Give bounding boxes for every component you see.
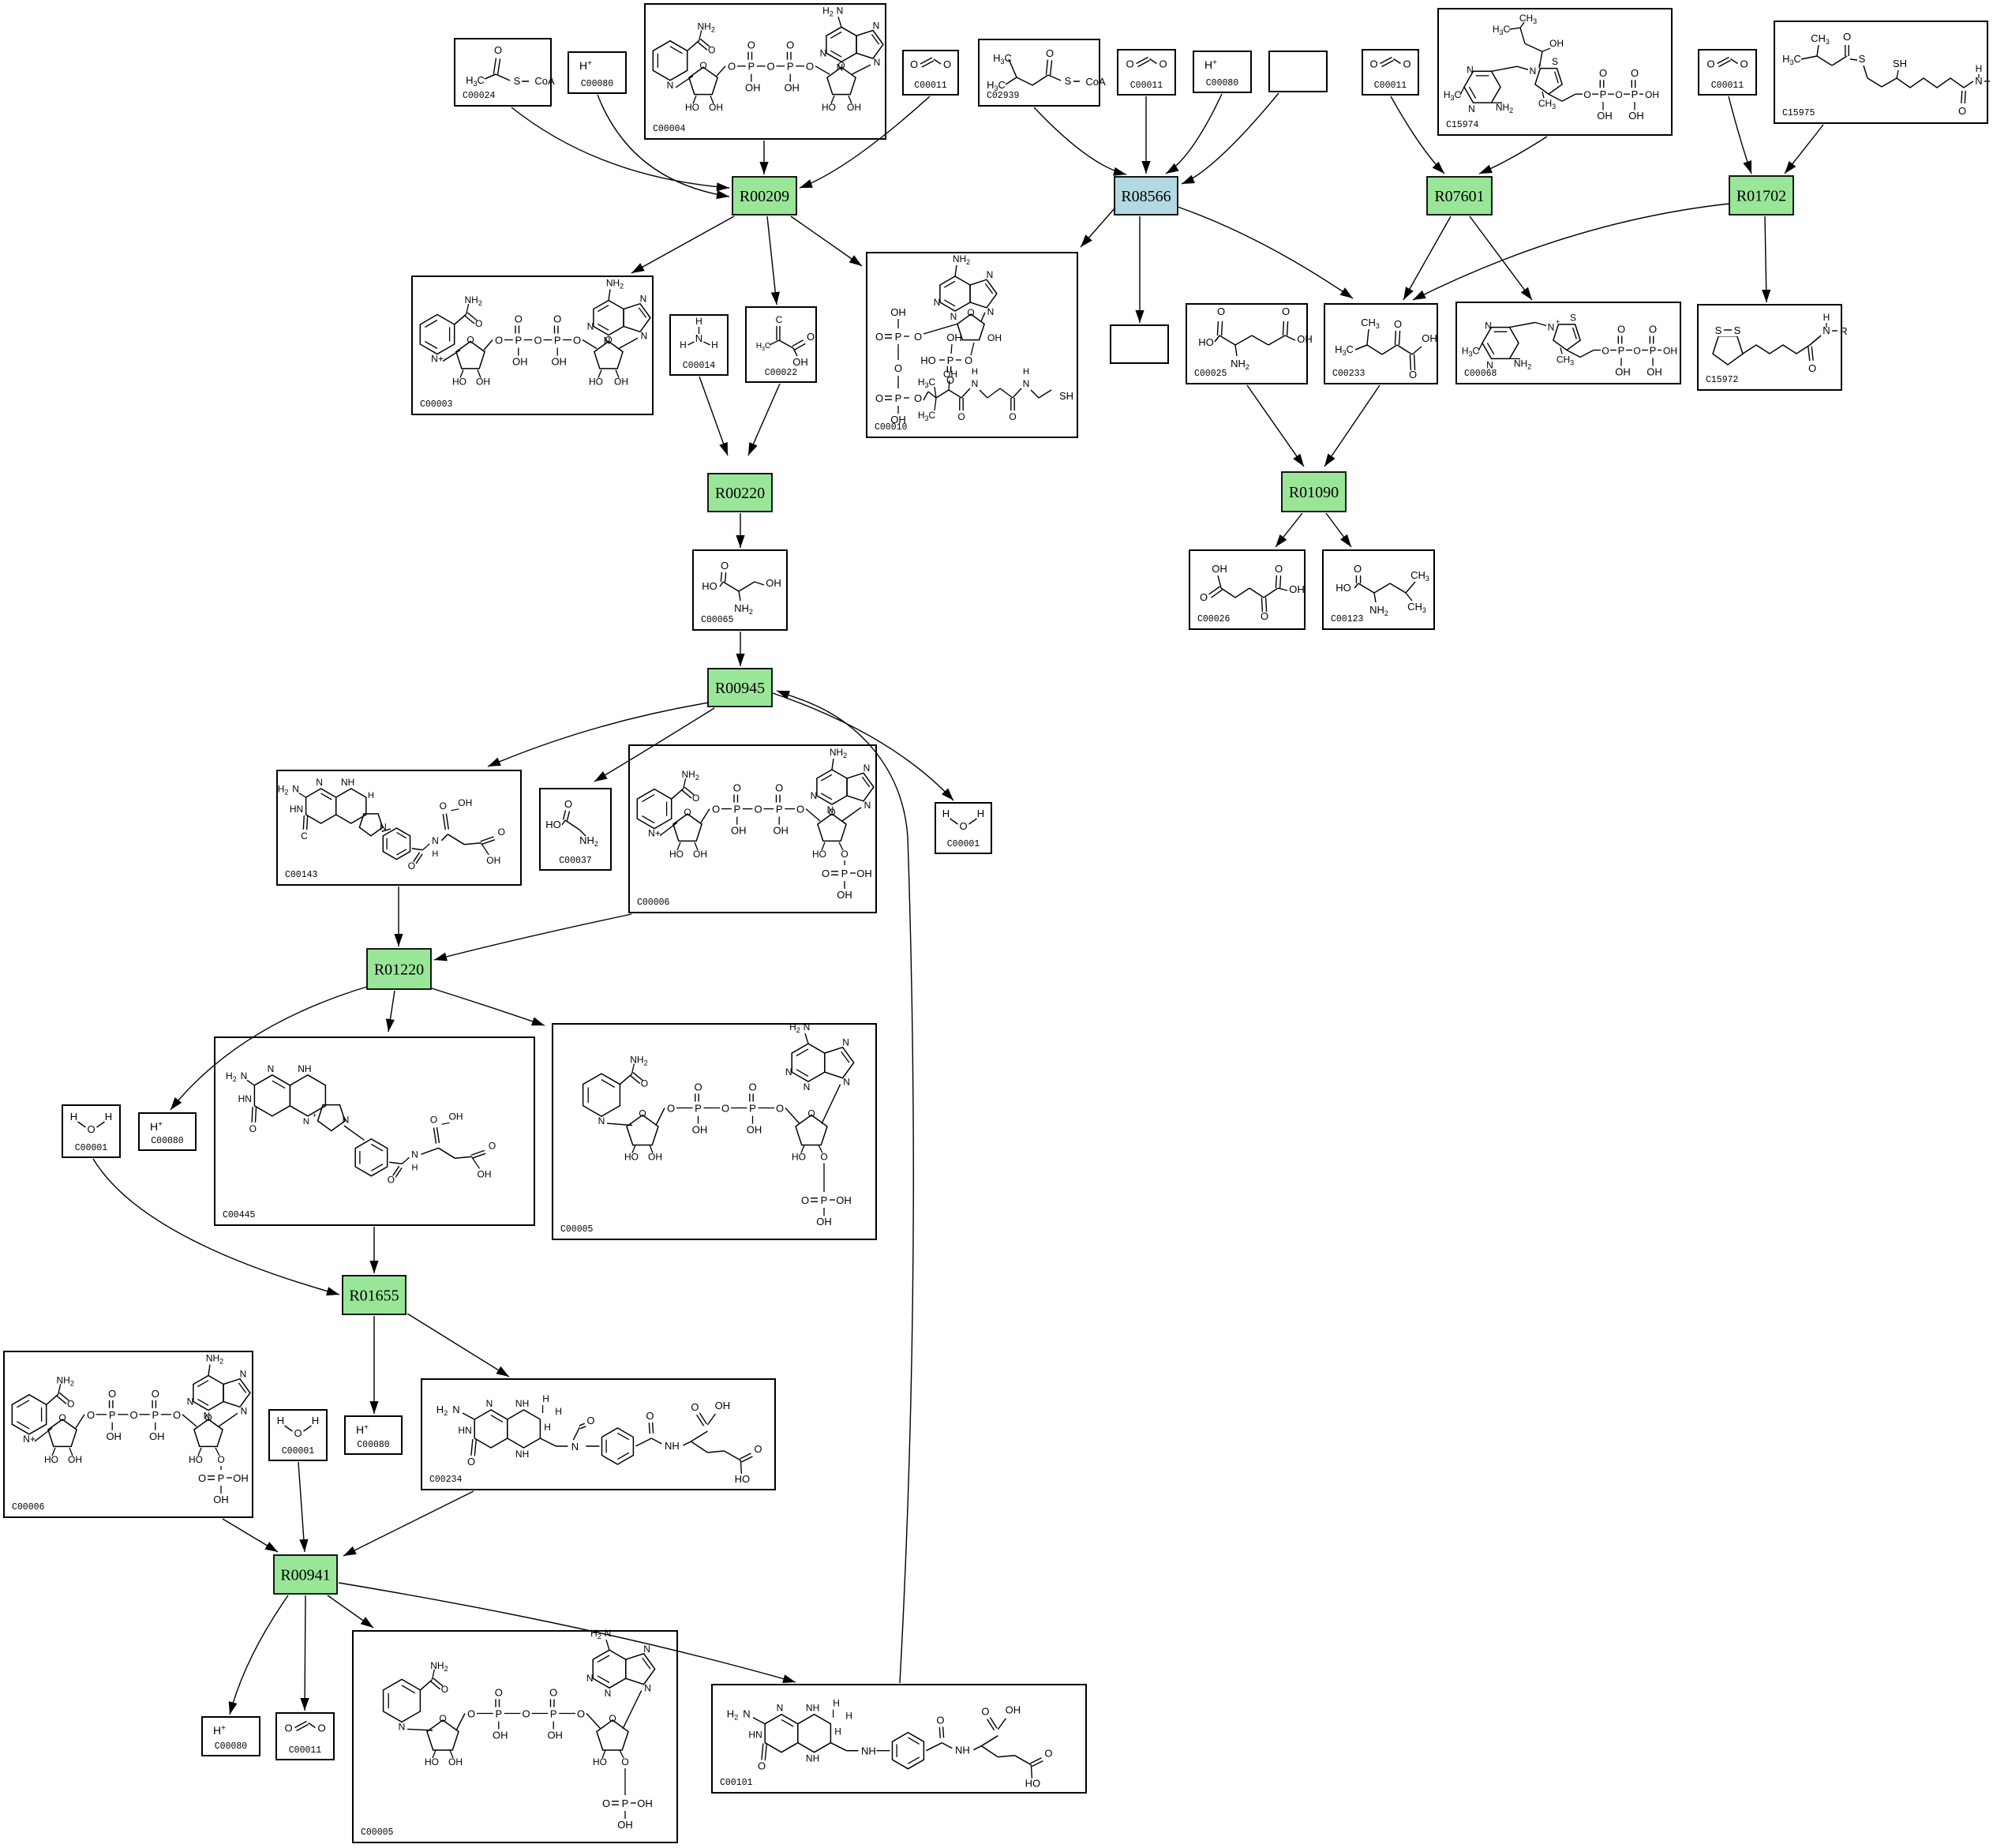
svg-text:R01655: R01655 <box>349 1288 399 1305</box>
svg-text:O: O <box>1958 105 1966 117</box>
arrow R08566 to C00233 <box>1178 207 1353 298</box>
reaction R00209 <box>732 177 796 215</box>
arrow C00445 to R01655 <box>369 1227 378 1273</box>
svg-text:N: N <box>804 1081 811 1093</box>
svg-text:P: P <box>749 1103 756 1115</box>
svg-text:NH: NH <box>806 1703 819 1714</box>
svg-text:N: N <box>804 1021 811 1033</box>
svg-text:N: N <box>343 1114 350 1125</box>
arrow R00941 to C00005 <box>328 1595 373 1628</box>
svg-text:OH: OH <box>1549 38 1564 49</box>
svg-text:OH: OH <box>816 1216 832 1228</box>
svg-text:O: O <box>1808 362 1816 374</box>
svg-text:O: O <box>439 1713 446 1724</box>
svg-text:C00101: C00101 <box>720 1778 753 1788</box>
arrow empty box to R08566 <box>1182 93 1279 184</box>
svg-text:O: O <box>1599 67 1607 79</box>
arrow C00234 to R00941 <box>343 1491 474 1556</box>
svg-text:O: O <box>549 1687 557 1699</box>
svg-text:O: O <box>957 411 965 422</box>
svg-text:H: H <box>833 1698 840 1709</box>
svg-text:O: O <box>841 849 848 860</box>
svg-text:O: O <box>691 1401 699 1413</box>
svg-text:N: N <box>452 1404 459 1415</box>
svg-text:HO: HO <box>1198 336 1214 348</box>
svg-text:O: O <box>1354 563 1362 575</box>
svg-text:NH: NH <box>665 1440 680 1452</box>
svg-text:N: N <box>604 335 611 347</box>
svg-text:P: P <box>947 354 954 366</box>
svg-text:P: P <box>1650 345 1657 357</box>
svg-text:NH: NH <box>341 777 354 788</box>
svg-text:O: O <box>728 61 736 73</box>
arrow R00945 to C00143 <box>488 703 709 767</box>
svg-text:N: N <box>785 1066 792 1078</box>
svg-text:R01702: R01702 <box>1736 188 1786 205</box>
svg-text:HO: HO <box>425 1756 439 1767</box>
compound C15975 S-isovaleryl-dihydrolipoamide <box>1774 21 1993 123</box>
svg-text:C00234: C00234 <box>429 1475 463 1485</box>
svg-text:C: C <box>301 830 308 842</box>
svg-text:N: N <box>843 1077 850 1088</box>
svg-text:N: N <box>571 1441 579 1453</box>
svg-text:C00143: C00143 <box>285 870 318 880</box>
svg-text:H: H <box>845 1711 852 1722</box>
arrow C00143 to R01220 <box>394 887 403 946</box>
svg-text:P: P <box>787 61 794 73</box>
svg-text:HO: HO <box>44 1454 58 1465</box>
compound C00101 tetrahydrofolate <box>712 1685 1086 1793</box>
svg-text:P: P <box>152 1409 159 1421</box>
svg-text:O: O <box>1409 369 1417 380</box>
svg-text:O: O <box>173 1409 181 1421</box>
svg-text:H: H <box>834 1726 841 1737</box>
arrow C00014 to R00220 <box>699 377 728 455</box>
svg-text:HO: HO <box>1025 1778 1041 1790</box>
svg-text:N: N <box>777 1703 784 1714</box>
svg-text:NH: NH <box>806 1753 819 1764</box>
svg-text:S: S <box>1715 324 1722 336</box>
svg-text:C00014: C00014 <box>683 361 716 371</box>
svg-text:P: P <box>1618 345 1625 357</box>
svg-text:P: P <box>895 392 902 404</box>
arrow C00025 to R01090 <box>1247 385 1304 467</box>
svg-text:OH: OH <box>1645 89 1659 100</box>
svg-text:N: N <box>598 1115 605 1126</box>
compound C00011 CO2 (2) <box>1118 50 1175 95</box>
svg-text:O: O <box>1631 67 1639 79</box>
svg-text:OH: OH <box>617 1819 633 1831</box>
arrow R00941 to C00011 <box>301 1595 309 1711</box>
svg-text:N: N <box>605 1628 612 1639</box>
svg-text:OH: OH <box>233 1472 249 1484</box>
reaction R00945 <box>708 669 772 707</box>
svg-text:N: N <box>987 269 994 280</box>
svg-text:C00445: C00445 <box>223 1210 256 1220</box>
svg-text:O: O <box>577 1708 585 1720</box>
compound C02939 isovaleryl-CoA <box>979 39 1106 106</box>
svg-text:NH: NH <box>861 1745 876 1757</box>
arrow C00024 to R00209 <box>511 107 729 191</box>
svg-text:O: O <box>108 1388 116 1400</box>
svg-text:O: O <box>1403 58 1410 70</box>
compound C00001 H2O (2) <box>62 1105 120 1157</box>
arrow C00011 to R08566 <box>1141 96 1150 174</box>
svg-text:O: O <box>914 392 922 404</box>
svg-text:O: O <box>317 1722 325 1734</box>
svg-text:O: O <box>1261 610 1268 622</box>
svg-text:OH: OH <box>766 577 781 589</box>
svg-text:O: O <box>965 354 972 366</box>
svg-text:O: O <box>758 1760 766 1772</box>
svg-text:OH: OH <box>747 1124 762 1136</box>
svg-text:NH: NH <box>515 1449 529 1460</box>
compound C15972 lipoamide <box>1698 305 1848 390</box>
svg-text:O: O <box>820 1152 827 1163</box>
svg-text:OH: OH <box>449 1111 463 1122</box>
compound C00068 thiamine diphosphate <box>1456 302 1680 384</box>
svg-text:OH: OH <box>1615 366 1631 378</box>
svg-text:O: O <box>1200 591 1208 603</box>
svg-text:O: O <box>1044 1748 1052 1760</box>
svg-text:N: N <box>874 57 881 68</box>
svg-text:O: O <box>667 1103 675 1115</box>
reaction R00220 <box>708 474 772 512</box>
svg-text:N: N <box>399 1721 406 1732</box>
svg-text:O: O <box>967 307 974 318</box>
svg-text:P: P <box>109 1409 116 1421</box>
svg-text:C00006: C00006 <box>12 1502 45 1513</box>
svg-text:OH: OH <box>149 1430 165 1442</box>
svg-text:C00065: C00065 <box>701 615 734 625</box>
svg-text:N: N <box>667 80 674 91</box>
svg-text:O: O <box>152 1388 159 1400</box>
arrow R01220 to C00080 <box>170 987 367 1110</box>
arrow C00004 to R00209 <box>759 141 768 174</box>
svg-text:O: O <box>875 392 883 404</box>
arrow R00220 to C00065 <box>736 513 744 548</box>
svg-text:H: H <box>942 808 950 819</box>
svg-text:O: O <box>1583 89 1590 100</box>
svg-text:C15975: C15975 <box>1782 108 1815 118</box>
svg-text:OH: OH <box>847 102 861 113</box>
svg-text:O: O <box>1633 346 1640 357</box>
compound C00001 H2O (1) <box>935 803 991 853</box>
svg-text:O: O <box>776 1103 784 1115</box>
svg-text:O: O <box>621 1756 628 1767</box>
svg-text:O: O <box>249 1123 257 1134</box>
arrow C00011 to R00209 <box>800 96 930 188</box>
svg-text:C00080: C00080 <box>581 79 614 89</box>
svg-text:S: S <box>1859 53 1866 65</box>
svg-text:C15974: C15974 <box>1446 120 1479 130</box>
arrow C00001 to R01655 <box>93 1159 339 1295</box>
svg-text:O: O <box>553 313 561 325</box>
svg-text:H: H <box>277 1415 284 1426</box>
svg-text:OH: OH <box>692 1124 708 1136</box>
arrow C00022 to R00220 <box>748 384 780 455</box>
svg-text:H: H <box>70 1111 77 1123</box>
svg-text:P: P <box>695 1103 702 1115</box>
svg-text:N: N <box>644 1683 651 1694</box>
svg-text:SH: SH <box>1893 58 1907 69</box>
svg-text:C00080: C00080 <box>357 1440 390 1450</box>
arrow R01702 to C00233 (long) <box>1413 204 1729 300</box>
svg-text:C: C <box>776 314 783 325</box>
svg-text:N: N <box>1548 322 1555 333</box>
compound C00080 H+ (1) <box>568 52 626 93</box>
svg-text:O: O <box>408 860 415 872</box>
svg-text:CoA: CoA <box>1085 76 1106 88</box>
compound C00001 H2O (3) <box>269 1410 327 1460</box>
svg-text:N+: N+ <box>648 828 661 839</box>
svg-text:O: O <box>602 1797 610 1809</box>
svg-text:O: O <box>981 1706 989 1718</box>
svg-text:O: O <box>721 1103 729 1115</box>
reaction R00941 <box>274 1555 337 1594</box>
svg-text:R: R <box>1840 325 1847 337</box>
svg-text:C00037: C00037 <box>559 856 591 866</box>
svg-text:N: N <box>842 1037 849 1048</box>
svg-text:O: O <box>807 1108 815 1119</box>
svg-text:C02939: C02939 <box>987 91 1020 101</box>
svg-text:C00080: C00080 <box>1206 78 1239 88</box>
svg-text:CoA: CoA <box>534 75 555 87</box>
arrow R00945 to C00001 <box>773 693 953 800</box>
compound C00080 H+ (5) <box>202 1717 260 1756</box>
svg-text:OH: OH <box>890 306 906 318</box>
svg-text:HO: HO <box>189 1454 203 1465</box>
svg-text:O: O <box>910 58 918 70</box>
svg-text:S: S <box>1734 324 1741 336</box>
svg-text:HN: HN <box>748 1730 762 1741</box>
svg-text:H: H <box>977 808 984 819</box>
compound C00025 L-glutamate <box>1186 304 1313 384</box>
svg-text:N: N <box>241 1070 248 1081</box>
svg-text:N: N <box>743 1708 750 1720</box>
svg-text:N: N <box>820 47 827 58</box>
svg-text:O: O <box>129 1409 137 1421</box>
svg-text:N: N <box>837 62 844 73</box>
svg-text:HO: HO <box>812 849 826 860</box>
svg-text:N: N <box>432 835 439 846</box>
svg-text:N: N <box>972 378 979 389</box>
svg-text:P: P <box>622 1797 629 1809</box>
svg-text:+: + <box>313 1111 317 1119</box>
svg-text:O: O <box>806 61 814 73</box>
svg-text:N: N <box>643 1644 650 1655</box>
arrow R01090 to C00026 <box>1276 513 1302 547</box>
svg-text:OH: OH <box>837 889 852 901</box>
svg-text:OH: OH <box>637 1797 653 1809</box>
compound C00080 H+ (4) <box>345 1416 402 1454</box>
svg-text:HN: HN <box>458 1425 471 1436</box>
svg-text:OH: OH <box>512 356 528 368</box>
svg-text:O: O <box>1394 318 1402 330</box>
svg-text:HN: HN <box>290 804 303 815</box>
svg-text:N: N <box>411 1149 418 1160</box>
svg-text:O: O <box>775 782 783 794</box>
svg-text:O: O <box>646 1410 654 1422</box>
svg-text:N: N <box>1468 103 1475 114</box>
svg-text:H: H <box>1023 367 1029 377</box>
svg-text:P: P <box>218 1472 225 1484</box>
svg-text:O: O <box>388 1174 395 1185</box>
svg-text:HO: HO <box>822 102 836 113</box>
reaction R01220 <box>367 949 431 989</box>
svg-text:O: O <box>807 331 815 343</box>
svg-text:O: O <box>1369 58 1377 70</box>
svg-text:N: N <box>837 5 844 16</box>
svg-text:N: N <box>586 1673 594 1684</box>
compound C00003 NAD+ <box>412 276 653 414</box>
svg-text:O: O <box>494 44 502 56</box>
svg-text:OH: OH <box>458 797 472 808</box>
svg-text:O: O <box>1275 563 1283 575</box>
svg-text:N+: N+ <box>431 354 444 365</box>
arrow C15975 to R01702 <box>1785 125 1823 174</box>
svg-text:N: N <box>1485 320 1492 332</box>
svg-text:N: N <box>240 1369 247 1380</box>
svg-text:O: O <box>747 39 755 51</box>
svg-text:OH: OH <box>1297 333 1313 345</box>
svg-text:C00003: C00003 <box>420 399 453 410</box>
svg-text:H: H <box>1976 63 1983 74</box>
arrow R08566 to empty box <box>1135 216 1144 323</box>
svg-text:OH: OH <box>476 377 490 388</box>
svg-text:O: O <box>796 804 804 815</box>
svg-text:N: N <box>827 804 834 815</box>
svg-text:O: O <box>1615 89 1622 100</box>
compound C00005 NADPH (2) <box>353 1628 677 1842</box>
svg-text:C00022: C00022 <box>765 368 798 378</box>
svg-text:N: N <box>811 790 818 801</box>
svg-text:OH: OH <box>1289 583 1305 595</box>
svg-text:H: H <box>1823 312 1830 323</box>
svg-text:O: O <box>515 313 523 325</box>
arrow C00101 to R00945 (long) <box>777 691 913 1683</box>
svg-text:O: O <box>721 560 729 572</box>
svg-text:O: O <box>87 1409 95 1421</box>
svg-text:N: N <box>587 321 594 332</box>
svg-text:C00006: C00006 <box>637 898 670 908</box>
svg-text:O: O <box>694 1081 702 1093</box>
svg-text:C00004: C00004 <box>653 124 686 134</box>
svg-text:C00005: C00005 <box>560 1224 594 1235</box>
svg-text:N: N <box>950 311 957 322</box>
svg-text:O: O <box>754 804 762 815</box>
svg-text:OH: OH <box>1422 332 1437 344</box>
svg-text:P: P <box>495 1708 502 1720</box>
svg-text:C00011: C00011 <box>914 81 947 91</box>
svg-text:HO: HO <box>452 377 466 388</box>
svg-text:OH: OH <box>731 825 747 837</box>
svg-text:O: O <box>801 1194 809 1206</box>
compound C00004 NADH <box>645 4 886 139</box>
svg-text:OH: OH <box>547 1730 563 1741</box>
svg-text:OH: OH <box>745 82 761 94</box>
arrow C00011 to R07601 <box>1391 96 1444 174</box>
reaction R07601 <box>1427 177 1492 215</box>
compound C00010 CoA <box>867 253 1077 437</box>
svg-text:O: O <box>1602 346 1609 357</box>
svg-text:HN: HN <box>238 1093 252 1104</box>
compound C00143 5,10-methylene-THF <box>277 770 521 885</box>
svg-text:P: P <box>821 1194 828 1206</box>
arrow C02939 to R08566 <box>1034 107 1126 176</box>
svg-text:O: O <box>766 61 774 73</box>
arrow R00941 to C00080 <box>229 1595 288 1715</box>
svg-text:O: O <box>198 1472 206 1484</box>
svg-text:R00209: R00209 <box>740 188 789 205</box>
svg-text:HO: HO <box>735 1473 751 1485</box>
svg-text:O: O <box>564 798 572 810</box>
svg-text:N: N <box>292 783 299 794</box>
arrow C00233 to R01090 <box>1324 385 1380 467</box>
svg-text:P: P <box>515 335 522 347</box>
svg-text:N: N <box>987 306 995 317</box>
svg-text:P: P <box>895 331 902 343</box>
compound C00005 NADPH (1) <box>553 1021 876 1239</box>
arrow R00945 to C00037 <box>594 708 714 782</box>
svg-text:N: N <box>303 1117 309 1126</box>
svg-text:O: O <box>1706 58 1714 70</box>
svg-text:O: O <box>1649 324 1657 335</box>
svg-text:HO: HO <box>920 354 936 366</box>
svg-text:O: O <box>699 60 706 71</box>
svg-text:O: O <box>748 1081 756 1093</box>
arrow R01220 to C00005 <box>432 988 545 1025</box>
svg-text:O: O <box>959 820 967 832</box>
svg-text:O: O <box>609 1713 616 1724</box>
svg-text:N: N <box>1486 359 1493 370</box>
svg-text:NH: NH <box>955 1745 970 1756</box>
svg-text:P: P <box>1631 88 1639 100</box>
svg-text:P: P <box>776 804 783 815</box>
svg-text:N: N <box>486 1398 493 1409</box>
empty compound box (top) <box>1269 51 1327 92</box>
svg-text:C00233: C00233 <box>1332 369 1366 379</box>
svg-text:OH: OH <box>715 1400 731 1411</box>
svg-text:OH: OH <box>856 868 872 879</box>
svg-text:O: O <box>894 362 902 374</box>
svg-text:O: O <box>495 1687 503 1699</box>
arrow R07601 to C00068 <box>1470 216 1532 300</box>
svg-text:OH: OH <box>836 1194 852 1206</box>
svg-text:O: O <box>1046 47 1054 59</box>
svg-text:O: O <box>440 800 447 812</box>
arrow C00080 to R00209 <box>598 95 729 199</box>
svg-text:H: H <box>555 1406 562 1417</box>
svg-text:C00024: C00024 <box>463 91 496 101</box>
svg-text:H: H <box>368 791 374 800</box>
svg-text:N: N <box>934 297 941 308</box>
svg-text:OH: OH <box>773 825 789 837</box>
compound C00011 CO2 (3) <box>1362 50 1418 95</box>
compound C00006 NADP+ (1) <box>629 745 876 913</box>
arrow C00065 to R00945 <box>736 632 744 666</box>
svg-text:H: H <box>544 1422 551 1433</box>
svg-text:HO: HO <box>593 1756 607 1767</box>
svg-text:OH: OH <box>493 1730 508 1741</box>
svg-text:O: O <box>914 331 922 343</box>
svg-text:O: O <box>586 1415 594 1426</box>
svg-text:P: P <box>733 804 740 815</box>
arrow R01220 to C00445 <box>386 991 395 1032</box>
svg-text:O: O <box>430 1114 437 1125</box>
svg-text:H: H <box>972 367 978 377</box>
svg-text:S: S <box>1552 56 1558 67</box>
